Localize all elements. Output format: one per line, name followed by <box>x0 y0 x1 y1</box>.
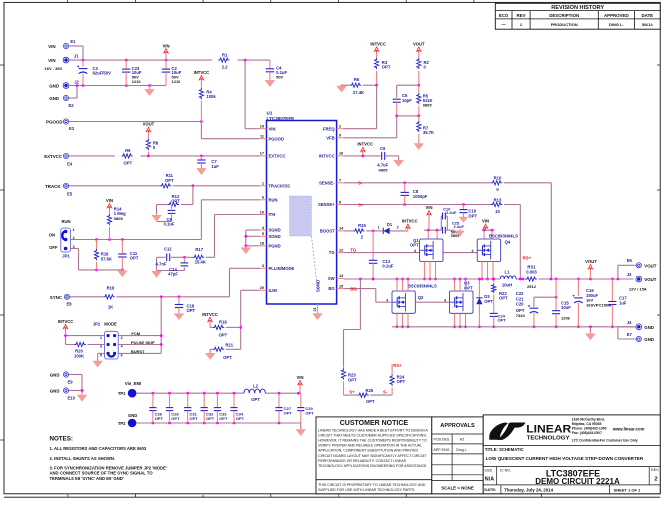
svg-text:GND: GND <box>50 389 60 394</box>
svg-text:ILIM: ILIM <box>269 288 278 293</box>
node E4 EXTVCC turret <box>63 153 68 158</box>
wire Q2 Q3 source stubs to PGND <box>396 313 398 327</box>
svg-text:4: 4 <box>472 249 474 253</box>
svg-text:11: 11 <box>260 135 264 139</box>
ground at C18 <box>178 312 180 314</box>
svg-text:RS+: RS+ <box>393 363 402 368</box>
svg-text:VIN: VIN <box>48 44 55 49</box>
svg-text:APP ENG.: APP ENG. <box>434 448 451 452</box>
svg-text:R15: R15 <box>358 223 366 228</box>
ground at C19 <box>463 215 465 217</box>
svg-text:19: 19 <box>260 125 264 129</box>
svg-text:OPT: OPT <box>219 416 228 421</box>
svg-text:100k: 100k <box>206 94 216 99</box>
svg-text:1. ALL RESISTORS AND CAPACITO: 1. ALL RESISTORS AND CAPACITORS ARE 0603 <box>50 446 147 451</box>
resistor R16 57.6K <box>96 240 98 250</box>
svg-text:OPT: OPT <box>187 308 196 313</box>
svg-text:OPT: OPT <box>219 333 228 338</box>
svg-text:18: 18 <box>260 242 264 246</box>
svg-text:E8: E8 <box>67 301 73 306</box>
svg-text:E5: E5 <box>67 192 73 197</box>
svg-text:TP1: TP1 <box>118 391 126 396</box>
svg-text:VIN: VIN <box>297 375 304 380</box>
svg-text:OPT: OPT <box>236 416 245 421</box>
svg-text:Q2: Q2 <box>418 295 424 300</box>
wire VIN rail <box>69 59 212 61</box>
svg-text:Vin_EMI: Vin_EMI <box>125 381 141 386</box>
svg-text:EXTVCC: EXTVCC <box>269 154 286 159</box>
svg-text:REV.: REV. <box>651 468 659 472</box>
svg-text:15: 15 <box>339 284 343 288</box>
svg-text:CIRCUIT BOARD LAYOUT MAY SIGNI: CIRCUIT BOARD LAYOUT MAY SIGNIFICANTLY A… <box>318 454 427 458</box>
svg-text:OPT: OPT <box>397 379 406 384</box>
svg-text:ON: ON <box>49 232 55 237</box>
ground at output rail <box>589 327 591 334</box>
svg-text:FCM: FCM <box>131 331 140 336</box>
transistor Q3 OPT <box>450 291 474 313</box>
svg-text:2: 2 <box>397 225 399 229</box>
svg-text:INTVCC: INTVCC <box>202 312 218 317</box>
svg-text:INTVCC: INTVCC <box>370 42 386 47</box>
resistor R20 100K <box>74 342 85 346</box>
resistor R21 OPT <box>226 348 241 350</box>
capacitor C27 OPT <box>278 393 280 407</box>
svg-text:2: 2 <box>654 476 657 482</box>
svg-text:THIS CIRCUIT IS PROPRIETARY TO: THIS CIRCUIT IS PROPRIETARY TO LINEAR TE… <box>318 483 426 487</box>
wire SW node rail <box>344 278 501 280</box>
title block with Linear Technology logo <box>483 415 660 494</box>
svg-text:OPT: OPT <box>305 411 314 416</box>
wire Q1 drain node <box>424 229 441 231</box>
svg-text:GND: GND <box>644 337 654 342</box>
svg-text:REV: REV <box>516 13 525 18</box>
svg-text:R1: R1 <box>222 52 228 57</box>
wire TRACK net <box>69 185 160 187</box>
svg-text:APPLICATION. COMPONENT SUBSTI: APPLICATION. COMPONENT SUBSTITUTION AND … <box>318 449 418 453</box>
resistor R6 27.4K <box>342 84 351 86</box>
node J2 GND jack <box>63 83 69 89</box>
wire EXTVCC net <box>69 155 115 157</box>
svg-text:Phone: (408)432-1900: Phone: (408)432-1900 <box>572 427 607 431</box>
svg-text:SW: SW <box>328 276 335 281</box>
svg-text:2: 2 <box>339 125 341 129</box>
svg-text:4: 4 <box>121 345 123 349</box>
svg-text:SENSE-: SENSE- <box>319 180 335 185</box>
svg-text:RUN: RUN <box>269 197 278 202</box>
svg-text:4: 4 <box>444 299 446 303</box>
resistor RS1 0.003 2512 sense resistor <box>526 277 537 281</box>
capacitor C31 OPT <box>187 393 189 407</box>
svg-text:www.linear.com: www.linear.com <box>612 427 645 432</box>
svg-text:GND: GND <box>50 373 60 378</box>
svg-text:OPT: OPT <box>206 416 215 421</box>
svg-text:0.1uF: 0.1uF <box>164 222 175 227</box>
wire BOOST net <box>344 230 354 232</box>
svg-text:VERIFY PROPER AND RELIABLE OPE: VERIFY PROPER AND RELIABLE OPERATION IN … <box>318 444 422 448</box>
svg-text:3: 3 <box>262 264 264 268</box>
svg-text:1: 1 <box>100 336 102 340</box>
ground at U1 pin21 <box>317 312 319 314</box>
svg-text:NOTES:: NOTES: <box>50 436 73 443</box>
svg-text:4: 4 <box>202 494 204 498</box>
svg-text:12: 12 <box>339 248 343 252</box>
capacitor C16 150uF 16V 16SVPC150M <box>577 279 579 296</box>
node TP1 Vin_EMI test point <box>128 389 137 398</box>
svg-text:1: 1 <box>262 182 264 186</box>
resistor R4 100k <box>199 88 203 99</box>
svg-text:INTVCC: INTVCC <box>319 154 335 159</box>
resistor R2 0 <box>417 58 421 69</box>
svg-text:35.7K: 35.7K <box>423 130 434 135</box>
resistor R23 OPT <box>343 367 345 368</box>
ground at U1 SGND pins <box>245 246 247 248</box>
svg-text:BSC093N04LS: BSC093N04LS <box>489 234 518 239</box>
resistor R11 OPT <box>160 184 171 188</box>
ground at C7 <box>200 166 202 168</box>
op-amp U1 LTC3807EFE controller IC <box>267 121 337 305</box>
svg-text:Q4: Q4 <box>505 239 511 244</box>
diode D3 OPT <box>478 279 480 298</box>
revision history table <box>495 3 660 29</box>
wire TP2 ground rail <box>136 422 300 424</box>
svg-text:10: 10 <box>260 210 264 214</box>
svg-text:Fax: (408)434-0507: Fax: (408)434-0507 <box>572 431 602 435</box>
svg-text:0.003: 0.003 <box>526 270 537 275</box>
svg-text:TITLE: SCHEMATIC: TITLE: SCHEMATIC <box>485 447 524 452</box>
svg-text:E9: E9 <box>68 380 74 385</box>
svg-text:CUSTOMER NOTICE: CUSTOMER NOTICE <box>340 420 409 427</box>
svg-text:10pF: 10pF <box>402 98 412 103</box>
capacitor C3 82uF/50V <box>82 60 84 67</box>
capacitor C5 10pF <box>393 98 401 100</box>
wire SENSE+ net S+ <box>344 204 491 206</box>
svg-text:1uF: 1uF <box>211 164 219 169</box>
svg-text:E2: E2 <box>69 103 75 108</box>
wire JP2 mode select <box>118 335 161 337</box>
svg-text:8: 8 <box>339 200 341 204</box>
wire TG gate net <box>344 252 420 254</box>
resistor R7 35.7K <box>418 116 420 121</box>
svg-text:6: 6 <box>121 354 123 358</box>
svg-text:OPT: OPT <box>468 213 477 218</box>
resistor R15 2 <box>353 229 364 233</box>
svg-text:RS+: RS+ <box>523 256 532 261</box>
ground at C11 <box>121 269 123 271</box>
svg-text:VOUT: VOUT <box>143 122 155 127</box>
ground at C9 <box>156 213 158 215</box>
svg-text:LINEAR: LINEAR <box>526 424 571 436</box>
svg-text:VFB: VFB <box>326 135 334 140</box>
svg-text:1206: 1206 <box>561 315 571 320</box>
resistor R9 OPT <box>121 154 132 158</box>
svg-text:LOW QUIESCENT CURRENT HIGH VO: LOW QUIESCENT CURRENT HIGH VOLTAGE STEP-… <box>486 456 644 461</box>
ground at E9 E10 <box>81 393 83 395</box>
svg-text:OPT: OPT <box>484 299 493 304</box>
svg-text:R21: R21 <box>225 342 233 347</box>
ground at R7 <box>418 142 420 144</box>
capacitor C25 2.2uF 50V 0805 <box>442 227 444 234</box>
capacitor C34 OPT <box>233 393 235 407</box>
svg-text:4: 4 <box>386 299 388 303</box>
resistor R19 OPT <box>210 326 213 328</box>
wire BG gate net <box>344 288 376 290</box>
svg-text:VIN: VIN <box>163 44 170 49</box>
svg-text:OPT: OPT <box>165 178 174 183</box>
svg-text:LTC3807EFE: LTC3807EFE <box>267 116 295 121</box>
svg-text:SENSE+: SENSE+ <box>318 202 335 207</box>
svg-text:1210: 1210 <box>132 79 142 84</box>
svg-text:9: 9 <box>339 134 341 138</box>
svg-text:TG: TG <box>329 250 335 255</box>
svg-text:S+: S+ <box>358 202 364 207</box>
svg-text:1630 McCarthy Blvd.: 1630 McCarthy Blvd. <box>572 417 605 421</box>
svg-text:PERFORMANCE OR RELIABILITY. C: PERFORMANCE OR RELIABILITY. CONTACT LINE… <box>318 459 407 463</box>
svg-text:R13: R13 <box>494 197 502 202</box>
svg-text:SIZE: SIZE <box>484 468 493 472</box>
ground at C6 <box>398 158 400 160</box>
svg-text:TERMINALS E8 'SYNC' AND E9 'GN: TERMINALS E8 'SYNC' AND E9 'GND' <box>50 476 124 481</box>
svg-text:INTVCC: INTVCC <box>357 142 373 147</box>
svg-text:0805: 0805 <box>451 234 459 238</box>
capacitor C14 47pF <box>183 257 185 263</box>
node TP2 GND test point <box>128 419 137 428</box>
svg-text:7: 7 <box>339 179 341 183</box>
resistor R10 0 <box>491 181 502 185</box>
svg-text:BSC035N04LS: BSC035N04LS <box>408 283 437 288</box>
svg-text:47pF: 47pF <box>168 272 178 277</box>
svg-text:6: 6 <box>262 196 264 200</box>
svg-text:JP1: JP1 <box>62 254 70 259</box>
svg-text:TG: TG <box>350 247 357 252</box>
svg-text:15.4K: 15.4K <box>195 260 206 265</box>
resistor R3 OPT <box>375 58 379 69</box>
svg-text:7343: 7343 <box>516 313 526 318</box>
svg-text:1K: 1K <box>108 305 113 310</box>
svg-text:TRACK/SS: TRACK/SS <box>269 183 291 188</box>
ground at input rail <box>149 86 151 90</box>
svg-text:GND: GND <box>128 413 137 418</box>
node E6 VOUT turret <box>617 265 619 279</box>
wire sense divider bottom <box>344 394 358 396</box>
node J3 VOUT jack <box>636 276 642 282</box>
ground at R21 <box>209 351 211 353</box>
capacitor C15 10uF 1206 <box>555 279 557 311</box>
svg-text:D1: D1 <box>387 222 393 227</box>
svg-text:100K: 100K <box>74 353 84 358</box>
ground at ITH network <box>156 269 158 271</box>
customer notice box <box>316 417 432 494</box>
svg-text:INTVCC: INTVCC <box>402 218 418 223</box>
capacitor C6 4.7uF 0805 <box>344 155 381 157</box>
svg-text:R6: R6 <box>354 77 360 82</box>
svg-text:SUPPLIED FOR USE WITH LINEAR T: SUPPLIED FOR USE WITH LINEAR TECHNOLOGY … <box>318 488 415 492</box>
svg-text:1000pF: 1000pF <box>413 194 428 199</box>
svg-text:SCALE = NONE: SCALE = NONE <box>441 485 474 490</box>
svg-text:REVISION HISTORY: REVISION HISTORY <box>551 5 604 11</box>
svg-text:50V: 50V <box>276 74 283 79</box>
svg-text:21: 21 <box>313 307 317 311</box>
svg-text:OPT: OPT <box>190 416 199 421</box>
capacitor C13 0.1uF boost cap <box>372 231 374 260</box>
svg-text:SGND: SGND <box>269 234 281 239</box>
capacitor C26 OPT <box>152 393 154 407</box>
svg-text:82uF/50V: 82uF/50V <box>93 71 112 76</box>
resistor R18 1K <box>103 295 114 299</box>
svg-text:20: 20 <box>260 286 264 290</box>
svg-text:U1: U1 <box>267 111 273 116</box>
svg-text:1210: 1210 <box>172 79 182 84</box>
svg-text:APPROVALS: APPROVALS <box>440 423 475 429</box>
svg-text:VIN: VIN <box>106 198 113 203</box>
svg-text:BOOST: BOOST <box>320 229 335 234</box>
svg-text:OPT: OPT <box>155 416 164 421</box>
svg-text:SHEET 1 OF 1: SHEET 1 OF 1 <box>614 487 641 492</box>
svg-text:R25: R25 <box>365 388 373 393</box>
svg-text:OPT: OPT <box>284 411 293 416</box>
svg-text:27.4K: 27.4K <box>353 90 364 95</box>
svg-text:C6: C6 <box>380 146 386 151</box>
svg-text:N/A: N/A <box>485 476 494 482</box>
svg-text:OPT: OPT <box>223 355 232 360</box>
node J1 VIN jack <box>63 57 69 63</box>
wire JP1 pin3 to ground return <box>71 248 79 250</box>
wire VIN to U1 pin19 <box>244 60 246 129</box>
svg-text:PGND: PGND <box>269 243 281 248</box>
resistor R14 1 Meg 0805 <box>107 214 111 225</box>
svg-text:OPT: OPT <box>410 243 419 248</box>
capacitor C32 OPT <box>203 393 205 407</box>
wire PGND output rail <box>392 326 633 328</box>
svg-text:1: 1 <box>378 225 380 229</box>
transistor Q2 BSC035N04LS <box>392 291 415 313</box>
approvals box <box>432 417 483 494</box>
svg-text:16V - 38V: 16V - 38V <box>45 66 63 71</box>
svg-text:VOUT: VOUT <box>413 42 425 47</box>
svg-text:BG: BG <box>328 286 334 291</box>
capacitor C11 OPT <box>121 240 123 255</box>
svg-text:TP2: TP2 <box>118 421 126 426</box>
svg-text:TECHNOLOGY APPLICATIONS ENGINE: TECHNOLOGY APPLICATIONS ENGINEERING FOR … <box>318 464 427 468</box>
svg-text:INTVCC: INTVCC <box>194 70 210 75</box>
svg-text:0.1uF: 0.1uF <box>382 264 393 269</box>
svg-text:4.7nF: 4.7nF <box>156 262 167 267</box>
diode D1 <box>383 228 389 234</box>
svg-text:PGOOD: PGOOD <box>269 136 285 141</box>
svg-text:J4: J4 <box>627 320 632 325</box>
svg-text:L2: L2 <box>253 383 259 388</box>
ground at R6 <box>341 84 343 86</box>
svg-text:J1: J1 <box>74 54 79 59</box>
svg-text:HOWEVER, IT REMAINS THE CUSTOM: HOWEVER, IT REMAINS THE CUSTOMER'S RESPO… <box>318 439 427 443</box>
svg-text:VIN: VIN <box>426 205 433 210</box>
svg-text:2512: 2512 <box>527 284 537 289</box>
svg-text:TRACK: TRACK <box>45 184 61 189</box>
capacitor C18 OPT <box>178 297 180 305</box>
svg-text:0805: 0805 <box>379 167 389 172</box>
resistor R1 2.2 <box>218 58 229 62</box>
svg-text:E7: E7 <box>627 332 633 337</box>
ground at TP2 rail <box>300 428 302 430</box>
node E8 SYNC turret <box>64 294 69 299</box>
svg-text:OPT: OPT <box>382 65 391 70</box>
wire VFB divider top node <box>417 84 420 87</box>
svg-text:17: 17 <box>260 152 264 156</box>
svg-text:5/6/14: 5/6/14 <box>642 23 653 27</box>
wire JP2 pin5 to ground <box>98 352 105 354</box>
svg-text:2.2uF: 2.2uF <box>446 210 457 215</box>
svg-text:3: 3 <box>100 345 102 349</box>
node E7 GND turret <box>617 327 619 339</box>
ground at JP2 <box>97 359 99 361</box>
svg-text:GND: GND <box>49 84 59 89</box>
svg-text:OPT: OPT <box>171 416 180 421</box>
capacitor C7 1uF <box>200 156 202 160</box>
svg-text:5: 5 <box>67 494 69 498</box>
wire PGOOD net <box>69 121 201 123</box>
svg-text:R17: R17 <box>195 247 203 252</box>
resistor R8 0 <box>146 139 150 150</box>
inductor L1 10uH <box>500 276 516 279</box>
ground at C25 <box>459 229 461 231</box>
svg-text:ITH: ITH <box>269 212 276 217</box>
svg-text:E3: E3 <box>69 126 75 131</box>
wire SENSE- net S- <box>344 182 491 184</box>
svg-text:S-: S- <box>383 390 388 395</box>
svg-text:OPT: OPT <box>124 160 133 165</box>
resistor R22 OPT snubber <box>493 279 495 283</box>
svg-text:10uH: 10uH <box>502 282 512 287</box>
wire Q2 Q3 drain stubs from SW <box>396 279 398 291</box>
svg-text:13: 13 <box>339 274 343 278</box>
svg-text:OPT: OPT <box>130 256 139 261</box>
wire VFB net <box>397 115 419 117</box>
capacitor C29 OPT <box>300 393 302 407</box>
svg-text:S-: S- <box>358 181 363 186</box>
resistor R17 15.4K <box>193 255 204 259</box>
node E10 GND turret <box>63 388 68 393</box>
svg-text:PLLIN/MODE: PLLIN/MODE <box>269 266 295 271</box>
svg-text:0805: 0805 <box>423 103 433 108</box>
svg-text:J3: J3 <box>627 272 632 277</box>
svg-text:IC NO.: IC NO. <box>500 468 511 472</box>
svg-text:BURST: BURST <box>131 349 145 354</box>
svg-text:VOUT: VOUT <box>644 277 657 282</box>
svg-text:OPT: OPT <box>171 199 180 204</box>
wire Q4 drain node <box>482 229 495 231</box>
svg-text:57.6K: 57.6K <box>101 256 112 261</box>
node E5 TRACK turret <box>63 183 68 188</box>
svg-text:DATE:: DATE: <box>484 487 496 492</box>
svg-text:SGND: SGND <box>269 228 281 233</box>
resistor R5 511K 0805 <box>418 85 420 93</box>
node E2 GND turret <box>63 95 68 100</box>
svg-text:2.2uF: 2.2uF <box>454 224 465 229</box>
svg-text:10: 10 <box>495 209 500 214</box>
inductor L2 OPT <box>244 389 266 393</box>
svg-text:GND: GND <box>644 325 654 330</box>
svg-text:C12: C12 <box>164 247 172 252</box>
capacitor C22 C21 C20 OPT 7343 output caps <box>534 296 556 298</box>
svg-text:Thursday, July 24, 2014: Thursday, July 24, 2014 <box>504 487 554 492</box>
svg-text:E10: E10 <box>68 396 76 401</box>
svg-text:PULSE SKIP: PULSE SKIP <box>131 340 155 345</box>
wire GND input rail <box>69 85 166 87</box>
svg-text:OPT: OPT <box>251 397 260 402</box>
wire SGND PGND to ground <box>246 229 260 231</box>
svg-text:CIRCUIT THAT MEETS CUSTOMER-SU: CIRCUIT THAT MEETS CUSTOMER-SUPPLIED SPE… <box>318 433 427 437</box>
svg-text:LINEAR TECHNOLOGY HAS MADE A B: LINEAR TECHNOLOGY HAS MADE A BEST EFFORT… <box>318 428 428 432</box>
svg-text:VIN: VIN <box>482 219 489 224</box>
